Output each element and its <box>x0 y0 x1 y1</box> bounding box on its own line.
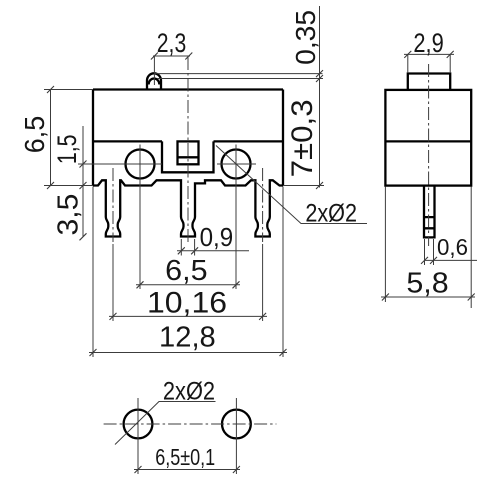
centerline body/pin2 <box>187 57 189 242</box>
svg-text:0,35: 0,35 <box>290 10 321 65</box>
dim line 0,6 <box>425 259 478 261</box>
ext 0,9 <box>181 239 194 256</box>
bottom view hole right <box>222 410 251 439</box>
slashes 12,8 <box>90 349 287 356</box>
dim line 10,16 <box>109 315 267 317</box>
centerline pin1 <box>112 168 114 242</box>
channel <box>162 141 214 172</box>
ext 6,5 left top <box>44 89 93 91</box>
ext 12,8 left <box>92 187 94 358</box>
svg-text:2,3: 2,3 <box>157 28 187 58</box>
center square <box>178 141 199 164</box>
svg-text:5,8: 5,8 <box>406 268 448 300</box>
crosshair right circle <box>217 145 256 290</box>
svg-text:0,6: 0,6 <box>437 234 468 260</box>
slashes 2,3 <box>151 53 192 60</box>
slashes 0,6 <box>421 257 437 264</box>
svg-text:6,5: 6,5 <box>19 116 50 153</box>
ext 10,16 left <box>112 244 114 321</box>
svg-text:2xØ2: 2xØ2 <box>305 199 357 227</box>
body bottom profile with pins <box>93 180 283 236</box>
side view button <box>408 74 450 90</box>
svg-text:7±0,3: 7±0,3 <box>286 99 319 177</box>
centerline side view <box>428 64 430 246</box>
mounting hole left <box>126 150 155 179</box>
svg-text:1,5: 1,5 <box>52 134 82 164</box>
dim line 5,8 <box>381 296 475 298</box>
ext 5,8 <box>385 187 471 309</box>
crosshair left circle <box>78 145 162 290</box>
svg-text:2,9: 2,9 <box>413 28 443 58</box>
slashes 0,9 <box>178 247 198 254</box>
ext 12,8 right <box>282 187 284 358</box>
mounting hole right <box>222 150 251 179</box>
ext 0,35 lower <box>157 78 323 80</box>
side view body <box>385 90 471 186</box>
crosshair bottom holes <box>138 398 236 474</box>
slashes 5,8 <box>382 294 475 301</box>
ledge line <box>93 140 283 142</box>
ext 6,5 left bottom <box>44 185 93 187</box>
svg-text:0,9: 0,9 <box>200 222 234 252</box>
leader 2xØ2 bottom <box>115 402 216 445</box>
slashes 10,16 <box>110 313 267 320</box>
bottom view hole left <box>124 410 153 439</box>
centerline bottom view <box>104 423 277 425</box>
side view pin <box>424 186 435 238</box>
leader 2xØ2 front <box>216 146 367 224</box>
ext 2,3 left <box>153 56 155 85</box>
ext 0,35 upper <box>155 73 323 75</box>
slashes 6,5±0,1 <box>135 466 240 473</box>
slashes 6,5 bottom <box>137 281 240 288</box>
dim line 2,3 <box>153 55 190 57</box>
slashes 6,5 left <box>47 86 54 189</box>
svg-text:3,5: 3,5 <box>53 194 85 236</box>
button front view <box>147 73 161 89</box>
dim line 0,35 and 7 <box>319 6 321 188</box>
dim line 6,5 bottom <box>136 284 240 286</box>
switch body front view outline <box>93 90 283 186</box>
dim line 6,5 left <box>50 90 52 186</box>
dim line 2,9 <box>404 53 454 55</box>
svg-text:2xØ2: 2xØ2 <box>163 378 215 406</box>
dim line 1,5 and 3,5 <box>82 126 84 237</box>
slashes 2,9 <box>404 51 453 58</box>
slashes 1,5 / 3,5 <box>80 161 87 241</box>
dim line 6,5±0,1 <box>134 469 240 471</box>
svg-text:10,16: 10,16 <box>147 287 227 320</box>
dim line 12,8 <box>89 352 287 354</box>
ext 2,9 <box>408 54 450 73</box>
svg-text:6,5±0,1: 6,5±0,1 <box>155 444 215 470</box>
centerline pin3 <box>262 168 264 242</box>
svg-text:12,8: 12,8 <box>159 321 216 353</box>
dim line 0,9 <box>177 250 249 252</box>
ext 0,6 <box>425 239 434 265</box>
slashes 0,35 / 7 <box>316 70 323 189</box>
svg-text:6,5: 6,5 <box>165 255 207 287</box>
ext 10,16 right <box>262 244 264 321</box>
ext 7 bottom <box>283 185 324 187</box>
